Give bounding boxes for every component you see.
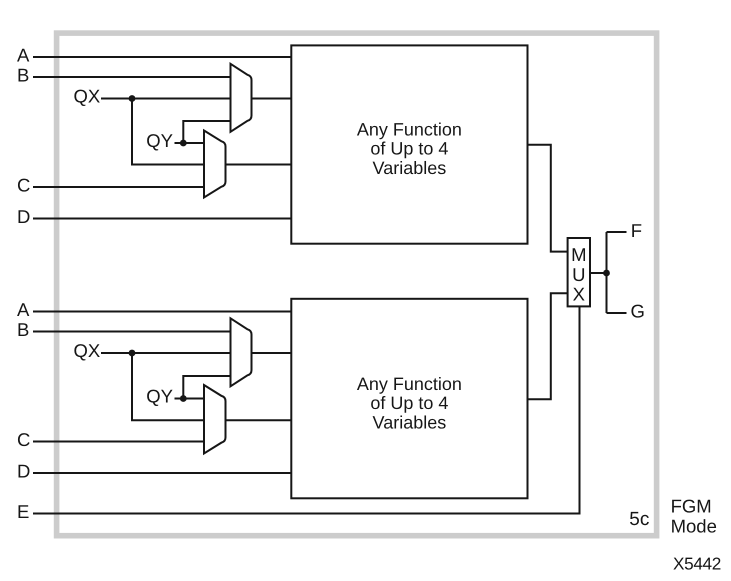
svg-text:FGM: FGM (671, 495, 712, 516)
function generator block F' (291, 45, 527, 243)
svg-text:Any Function: Any Function (357, 374, 462, 394)
wire QY (upper) (175, 142, 205, 144)
svg-text:D: D (17, 206, 30, 227)
wire QX (lower) (101, 352, 231, 354)
svg-text:Mode: Mode (671, 516, 717, 537)
svg-text:E: E (17, 501, 29, 522)
mux U3 box (568, 238, 590, 306)
wire mux M4 output (lower) (226, 419, 293, 421)
wire QX to mux M4 (lower) (132, 353, 204, 420)
wire C (lower) (33, 441, 204, 443)
CLB boundary box (57, 33, 657, 536)
wire QX (upper) (101, 98, 231, 100)
svg-text:X: X (573, 283, 585, 304)
svg-text:QY: QY (146, 130, 173, 151)
wire MUX output (590, 272, 607, 274)
svg-text:QX: QX (74, 340, 101, 361)
wire mux M3 output (lower) (252, 352, 293, 354)
mux M1 (upper) (231, 64, 252, 132)
wire A (upper) (33, 56, 292, 58)
wire QY to mux M1 (upper) (183, 121, 230, 143)
block G' caption (357, 374, 462, 433)
wire E select (33, 306, 580, 513)
svg-text:A: A (17, 44, 30, 65)
junction dot QY (upper) (180, 140, 187, 147)
svg-text:B: B (17, 64, 29, 85)
block F' caption (357, 119, 462, 178)
wire B (upper) (33, 76, 231, 78)
svg-text:C: C (17, 174, 30, 195)
mux M4 (lower) (204, 385, 226, 454)
junction dot QY (lower) (180, 395, 187, 402)
svg-text:Any Function: Any Function (357, 119, 462, 139)
function generator block G' (291, 299, 527, 499)
svg-text:B: B (17, 319, 29, 340)
wire block F' output to MUX (528, 145, 568, 252)
svg-text:A: A (17, 299, 30, 320)
svg-text:of Up to 4: of Up to 4 (370, 139, 448, 159)
wire A (lower) (33, 311, 292, 313)
wire QY to mux M3 (lower) (183, 376, 230, 399)
svg-text:QX: QX (74, 85, 101, 106)
wire to F (607, 231, 627, 233)
svg-text:Variables: Variables (373, 158, 447, 178)
wire mux M1 output (upper) (252, 98, 293, 100)
svg-text:Variables: Variables (373, 413, 447, 433)
wire B (lower) (33, 331, 231, 333)
wire QX to mux M2 (upper) (132, 99, 204, 165)
svg-text:X5442: X5442 (673, 553, 721, 573)
caption FGM Mode (671, 495, 717, 536)
mux M3 (lower) (231, 318, 252, 386)
wire QY (lower) (175, 398, 205, 400)
svg-text:G: G (631, 301, 645, 322)
mux U3 caption M U X (571, 244, 586, 304)
svg-text:F: F (631, 220, 642, 241)
svg-text:U: U (572, 264, 585, 285)
svg-text:M: M (571, 244, 586, 265)
mux M2 (upper) (204, 131, 226, 198)
svg-text:C: C (17, 429, 30, 450)
wire C (upper) (33, 186, 204, 188)
junction dot F/G node (603, 270, 610, 277)
wire block G' output to MUX (528, 293, 568, 399)
svg-text:of Up to 4: of Up to 4 (370, 393, 448, 413)
svg-text:5c: 5c (629, 509, 649, 530)
junction dot QX (lower) (129, 350, 136, 357)
wire mux M2 output (upper) (226, 164, 293, 166)
svg-text:D: D (17, 460, 30, 481)
wire D (upper) (33, 218, 292, 220)
wire to G (607, 312, 627, 314)
junction dot QX (upper) (129, 95, 136, 102)
wire D (lower) (33, 472, 292, 474)
svg-text:QY: QY (146, 386, 173, 407)
wire F/G branch vertical (606, 232, 608, 313)
